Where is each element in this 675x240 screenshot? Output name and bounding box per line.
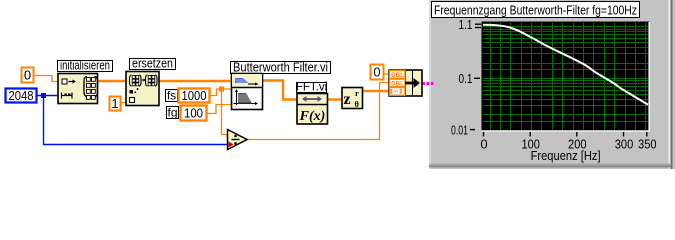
svg-text:0: 0 [480, 137, 487, 152]
svg-text:Butterworth Filter.vi: Butterworth Filter.vi [233, 60, 328, 75]
svg-text:z: z [344, 91, 351, 108]
svg-text:F(x): F(x) [299, 109, 326, 124]
svg-text:1: 1 [111, 96, 118, 111]
svg-text:θ: θ [355, 99, 360, 109]
svg-text:DBL: DBL [391, 72, 404, 79]
svg-text:1.1: 1.1 [459, 17, 473, 32]
svg-text:fg: fg [167, 106, 177, 120]
svg-text:Frequennzgang Butterworth-Filt: Frequennzgang Butterworth-Filter fg=100H… [434, 3, 637, 18]
svg-text:100: 100 [184, 106, 203, 121]
svg-text:FFT.vi: FFT.vi [296, 82, 327, 94]
svg-text:ersetzen: ersetzen [132, 56, 173, 71]
svg-text:DBL: DBL [391, 81, 404, 88]
svg-text:Frequenz [Hz]: Frequenz [Hz] [531, 148, 601, 163]
svg-text:2048: 2048 [9, 88, 34, 103]
svg-text:1000: 1000 [182, 88, 207, 103]
svg-text:0.1: 0.1 [459, 71, 473, 86]
svg-text:350: 350 [638, 137, 657, 152]
svg-text:0: 0 [373, 65, 380, 80]
svg-text:r: r [355, 88, 359, 98]
svg-text:fs: fs [167, 89, 176, 103]
svg-text:initialisieren: initialisieren [60, 58, 110, 73]
svg-text:0.01: 0.01 [451, 123, 468, 138]
svg-text:0: 0 [24, 68, 31, 83]
svg-text:300: 300 [615, 137, 634, 152]
